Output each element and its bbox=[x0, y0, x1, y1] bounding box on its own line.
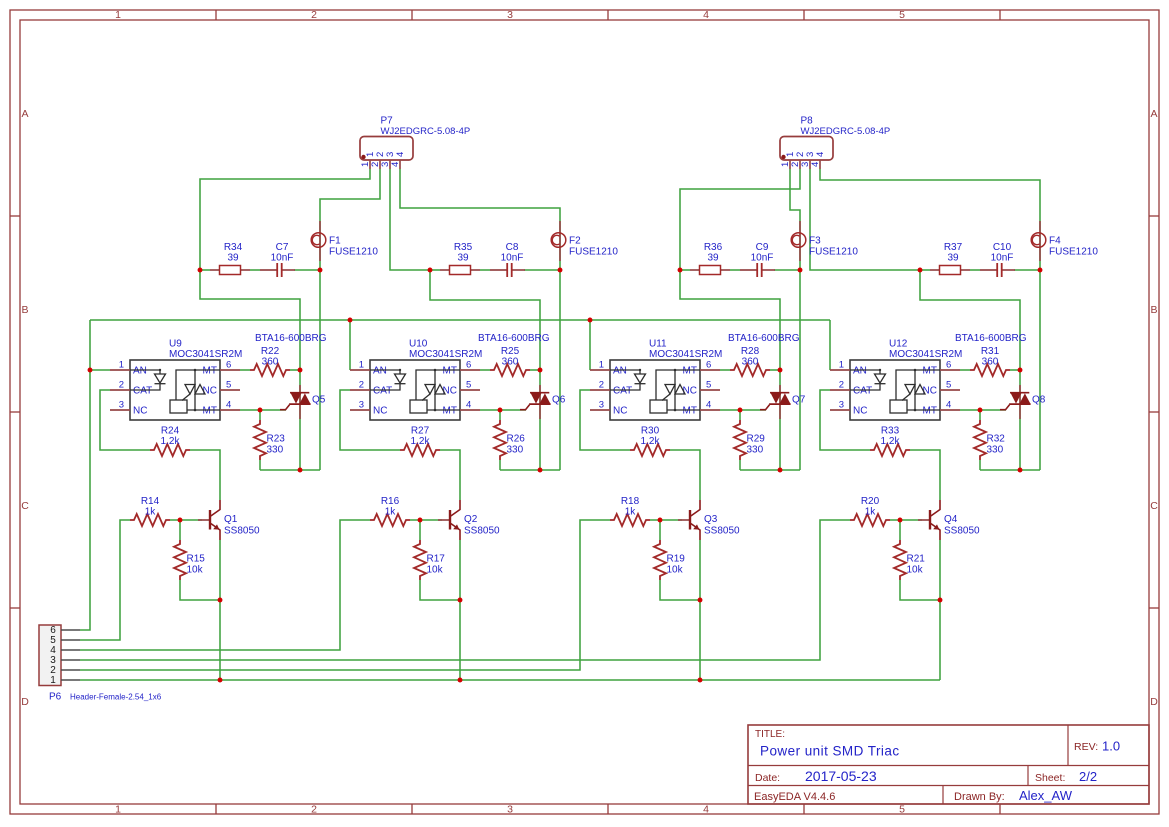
connector P8 WJ2EDGRC-5.08-4P bbox=[780, 116, 890, 170]
wire: emitter down to ground row bbox=[219, 540, 221, 680]
resistor R25 bbox=[490, 346, 530, 376]
wire: snubber 330 leads bbox=[979, 410, 981, 420]
wire: U12 AN drop bbox=[829, 320, 831, 370]
svg-text:5: 5 bbox=[706, 380, 711, 391]
wire: R27 to Q2 collector bbox=[440, 450, 460, 500]
svg-text:BTA16-600BRG: BTA16-600BRG bbox=[955, 333, 1027, 344]
junction bbox=[918, 268, 923, 273]
svg-text:Power unit SMD Triac: Power unit SMD Triac bbox=[760, 744, 900, 759]
svg-text:4: 4 bbox=[226, 400, 231, 411]
svg-text:330: 330 bbox=[747, 445, 764, 456]
svg-text:6: 6 bbox=[226, 360, 231, 371]
svg-text:5: 5 bbox=[226, 380, 231, 391]
resistor R19 bbox=[654, 540, 685, 580]
junction bbox=[178, 518, 183, 523]
svg-text:3: 3 bbox=[507, 9, 513, 21]
wire: R36 to C9 bbox=[730, 269, 740, 271]
svg-text:TITLE:: TITLE: bbox=[755, 729, 785, 740]
svg-text:1k: 1k bbox=[145, 507, 157, 518]
junction bbox=[218, 678, 223, 683]
wire: emitter down to ground row bbox=[699, 540, 701, 680]
junction bbox=[88, 368, 93, 373]
svg-text:MT: MT bbox=[923, 366, 937, 377]
junction bbox=[1018, 468, 1023, 473]
svg-text:R35: R35 bbox=[454, 242, 473, 253]
svg-text:5: 5 bbox=[899, 803, 905, 815]
fuse F3 bbox=[791, 221, 858, 261]
wire: R34 to C7 bbox=[250, 269, 260, 271]
wire: base node to 10k bbox=[659, 520, 661, 540]
wire: emitter down to ground row bbox=[939, 540, 941, 680]
transistor Q4 SS8050 bbox=[918, 500, 980, 540]
wire: opto MT pin6 to R360 bbox=[240, 369, 250, 371]
svg-text:P6: P6 bbox=[49, 692, 62, 703]
wire: P7 pin1 to node A1 bbox=[200, 169, 370, 270]
transistor Q3 SS8050 bbox=[678, 500, 740, 540]
wire: R33 to Q4 collector bbox=[910, 450, 940, 500]
wire: snubber 330 bottom to MT1 rail bbox=[740, 469, 800, 471]
svg-text:1.2k: 1.2k bbox=[161, 436, 181, 447]
svg-text:2: 2 bbox=[119, 380, 124, 391]
wire: P8 pin4 to fuse F4 bbox=[820, 169, 1040, 270]
svg-text:MT: MT bbox=[923, 406, 937, 417]
wire: U10 AN drop bbox=[349, 320, 351, 370]
svg-text:330: 330 bbox=[507, 445, 524, 456]
svg-text:R23: R23 bbox=[267, 434, 286, 445]
junction bbox=[778, 468, 783, 473]
junction bbox=[498, 408, 503, 413]
svg-text:10nF: 10nF bbox=[501, 252, 524, 263]
resistor R35 bbox=[440, 242, 480, 275]
fuse F4 bbox=[1031, 221, 1098, 261]
svg-text:MOC3041SR2M: MOC3041SR2M bbox=[409, 349, 482, 360]
wire: P6 pin2 to R18 bbox=[80, 520, 610, 670]
svg-text:10k: 10k bbox=[427, 565, 444, 576]
svg-text:F1: F1 bbox=[329, 236, 341, 247]
wire: R24 to Q1 collector bbox=[190, 450, 220, 500]
svg-text:4: 4 bbox=[466, 400, 471, 411]
svg-text:39: 39 bbox=[707, 252, 719, 263]
svg-text:39: 39 bbox=[227, 252, 239, 263]
wire: snubber 330 bottom to MT1 rail bbox=[500, 469, 560, 471]
svg-text:Q8: Q8 bbox=[1032, 395, 1046, 406]
svg-text:1k: 1k bbox=[865, 507, 877, 518]
svg-text:WJ2EDGRC-5.08-4P: WJ2EDGRC-5.08-4P bbox=[381, 126, 471, 137]
op-amp U11 MOC3041SR2M optocoupler bbox=[590, 339, 722, 421]
wire: R360 to triac bbox=[1010, 369, 1020, 371]
junction bbox=[418, 518, 423, 523]
svg-text:R19: R19 bbox=[667, 554, 686, 565]
svg-text:1.2k: 1.2k bbox=[881, 436, 901, 447]
wire: base node to 10k bbox=[179, 520, 181, 540]
junction bbox=[218, 598, 223, 603]
svg-text:Q7: Q7 bbox=[792, 395, 806, 406]
svg-text:10nF: 10nF bbox=[991, 252, 1014, 263]
wire: C7 to F1 node bbox=[294, 269, 320, 271]
resistor R23 bbox=[254, 420, 285, 460]
svg-text:Q4: Q4 bbox=[944, 514, 958, 525]
svg-text:R37: R37 bbox=[944, 242, 963, 253]
svg-text:MOC3041SR2M: MOC3041SR2M bbox=[169, 349, 242, 360]
wire: U10 CAT to R27 bbox=[340, 390, 400, 450]
junction bbox=[898, 518, 903, 523]
svg-text:SS8050: SS8050 bbox=[224, 526, 260, 537]
svg-text:10k: 10k bbox=[667, 565, 684, 576]
wire: anode rail ch1 / P6 pin6 bbox=[80, 320, 90, 630]
wire: base node to 10k bbox=[419, 520, 421, 540]
svg-text:NC: NC bbox=[133, 406, 147, 417]
wire: node A1 down to triac Q5 bbox=[200, 270, 300, 370]
junction bbox=[318, 268, 323, 273]
wire: P7 pin4 to fuse F2 bbox=[400, 169, 560, 270]
wire: base node to transistor bbox=[650, 519, 682, 521]
svg-text:6: 6 bbox=[466, 360, 471, 371]
wire: R360 to triac bbox=[530, 369, 540, 371]
wire: triac vertical MT2-MT1 bbox=[299, 370, 301, 470]
svg-text:FUSE1210: FUSE1210 bbox=[569, 247, 618, 258]
svg-text:1k: 1k bbox=[385, 507, 397, 518]
svg-text:3: 3 bbox=[359, 400, 364, 411]
svg-text:4: 4 bbox=[946, 400, 951, 411]
svg-text:39: 39 bbox=[947, 252, 959, 263]
svg-text:F4: F4 bbox=[1049, 236, 1061, 247]
svg-text:4: 4 bbox=[703, 803, 709, 815]
resistor R36 bbox=[690, 242, 730, 275]
svg-text:10nF: 10nF bbox=[271, 252, 294, 263]
svg-text:CAT: CAT bbox=[613, 386, 632, 397]
junction bbox=[258, 408, 263, 413]
resistor R20 bbox=[850, 496, 890, 526]
wire: 10k bottom to emitter bbox=[180, 580, 220, 600]
wire: P8 pin1 to fuse F3 bbox=[790, 169, 800, 270]
svg-text:NC: NC bbox=[443, 386, 457, 397]
svg-text:SS8050: SS8050 bbox=[464, 526, 500, 537]
svg-text:2/2: 2/2 bbox=[1079, 769, 1097, 784]
svg-text:R28: R28 bbox=[741, 346, 760, 357]
svg-text:REV:: REV: bbox=[1074, 741, 1098, 753]
svg-text:C7: C7 bbox=[276, 242, 289, 253]
svg-text:CAT: CAT bbox=[853, 386, 872, 397]
resistor R34 bbox=[210, 242, 250, 275]
junction bbox=[428, 268, 433, 273]
wire: F2 node rail down bbox=[559, 270, 561, 470]
svg-text:3: 3 bbox=[839, 400, 844, 411]
svg-text:2: 2 bbox=[311, 803, 317, 815]
wire: node A1 to R34 bbox=[200, 269, 210, 271]
svg-text:2: 2 bbox=[311, 9, 317, 21]
svg-text:R18: R18 bbox=[621, 496, 640, 507]
wire: U9 AN to rail bbox=[90, 369, 110, 371]
resistor R37 bbox=[930, 242, 970, 275]
resistor R17 bbox=[414, 540, 445, 580]
resistor R16 bbox=[370, 496, 410, 526]
svg-text:BTA16-600BRG: BTA16-600BRG bbox=[478, 333, 550, 344]
junction bbox=[778, 368, 783, 373]
wire: U12 CAT to R33 bbox=[820, 390, 870, 450]
svg-text:R25: R25 bbox=[501, 346, 520, 357]
svg-text:WJ2EDGRC-5.08-4P: WJ2EDGRC-5.08-4P bbox=[801, 126, 891, 137]
svg-text:Drawn By:: Drawn By: bbox=[954, 791, 1005, 803]
junction bbox=[1018, 368, 1023, 373]
resistor R22 bbox=[250, 346, 290, 376]
svg-text:F3: F3 bbox=[809, 236, 821, 247]
title block bbox=[748, 725, 1149, 804]
svg-text:1.2k: 1.2k bbox=[411, 436, 431, 447]
svg-text:360: 360 bbox=[742, 357, 759, 368]
svg-text:5: 5 bbox=[466, 380, 471, 391]
svg-text:2: 2 bbox=[839, 380, 844, 391]
connector P7 WJ2EDGRC-5.08-4P bbox=[360, 116, 470, 170]
svg-text:1: 1 bbox=[115, 9, 121, 21]
wire: triac vertical MT2-MT1 bbox=[539, 370, 541, 470]
junction bbox=[558, 268, 563, 273]
fuse F1 bbox=[311, 221, 378, 261]
svg-text:4: 4 bbox=[703, 9, 709, 21]
svg-text:F2: F2 bbox=[569, 236, 581, 247]
svg-text:R31: R31 bbox=[981, 346, 1000, 357]
svg-text:R21: R21 bbox=[907, 554, 926, 565]
svg-text:360: 360 bbox=[502, 357, 519, 368]
svg-text:4: 4 bbox=[395, 152, 406, 157]
wire: opto MT pin6 to R360 bbox=[720, 369, 730, 371]
svg-text:AN: AN bbox=[133, 366, 147, 377]
wire: P8 pin3 to node A4 bbox=[810, 169, 920, 270]
resistor R27 bbox=[400, 426, 440, 457]
svg-text:B: B bbox=[1150, 304, 1157, 316]
wire: C9 to F3 node bbox=[774, 269, 800, 271]
svg-text:10nF: 10nF bbox=[751, 252, 774, 263]
svg-text:R36: R36 bbox=[704, 242, 723, 253]
svg-text:D: D bbox=[1150, 696, 1158, 708]
junction bbox=[698, 598, 703, 603]
svg-text:FUSE1210: FUSE1210 bbox=[329, 247, 378, 258]
svg-text:MT: MT bbox=[203, 366, 217, 377]
junction bbox=[1038, 268, 1043, 273]
wire: R35 to C8 bbox=[480, 269, 490, 271]
wire: base node to transistor bbox=[410, 519, 442, 521]
svg-text:R30: R30 bbox=[641, 426, 660, 437]
svg-text:R34: R34 bbox=[224, 242, 243, 253]
wire: F1 node rail down bbox=[319, 270, 321, 470]
capacitor C7 bbox=[260, 242, 295, 277]
svg-text:Alex_AW: Alex_AW bbox=[1019, 788, 1073, 803]
svg-text:10k: 10k bbox=[907, 565, 924, 576]
svg-text:1: 1 bbox=[115, 803, 121, 815]
junction bbox=[698, 678, 703, 683]
resistor R29 bbox=[734, 420, 765, 460]
svg-text:R17: R17 bbox=[427, 554, 446, 565]
svg-text:NC: NC bbox=[683, 386, 697, 397]
svg-text:330: 330 bbox=[987, 445, 1004, 456]
wire: opto MT pin4 to triac gate bbox=[720, 409, 766, 411]
svg-text:Date:: Date: bbox=[755, 772, 780, 784]
svg-text:MOC3041SR2M: MOC3041SR2M bbox=[889, 349, 962, 360]
svg-text:R33: R33 bbox=[881, 426, 900, 437]
resistor R26 bbox=[494, 420, 525, 460]
resistor R18 bbox=[610, 496, 650, 526]
svg-text:MT: MT bbox=[683, 366, 697, 377]
triac Q8 BTA16-600BRG bbox=[955, 333, 1046, 419]
svg-text:Q5: Q5 bbox=[312, 395, 326, 406]
svg-text:Sheet:: Sheet: bbox=[1035, 772, 1065, 784]
wire: opto MT pin4 to triac gate bbox=[240, 409, 286, 411]
wire: U9 CAT to R24 bbox=[100, 390, 150, 450]
svg-text:3: 3 bbox=[507, 803, 513, 815]
svg-text:2: 2 bbox=[599, 380, 604, 391]
svg-text:3: 3 bbox=[599, 400, 604, 411]
svg-text:MT: MT bbox=[443, 406, 457, 417]
svg-text:D: D bbox=[21, 696, 29, 708]
junction bbox=[798, 268, 803, 273]
svg-text:10k: 10k bbox=[187, 565, 204, 576]
wire: base node to transistor bbox=[890, 519, 922, 521]
transistor Q2 SS8050 bbox=[438, 500, 500, 540]
wire: U11 AN drop bbox=[589, 320, 591, 370]
svg-text:R15: R15 bbox=[187, 554, 206, 565]
wire: triac vertical MT2-MT1 bbox=[779, 370, 781, 470]
wire: P6 pin4 to R16 bbox=[80, 520, 370, 650]
triac Q7 BTA16-600BRG bbox=[728, 333, 806, 419]
wire: P7 pin3 to node A2 bbox=[390, 169, 430, 270]
svg-text:C9: C9 bbox=[756, 242, 769, 253]
svg-text:A: A bbox=[1150, 108, 1157, 120]
svg-text:1.2k: 1.2k bbox=[641, 436, 661, 447]
svg-text:4: 4 bbox=[706, 400, 711, 411]
svg-text:NC: NC bbox=[203, 386, 217, 397]
junction bbox=[298, 368, 303, 373]
junction bbox=[198, 268, 203, 273]
wire: base node to 10k bbox=[899, 520, 901, 540]
svg-text:330: 330 bbox=[267, 445, 284, 456]
wire: LED anode bus bbox=[90, 319, 830, 321]
svg-text:SS8050: SS8050 bbox=[704, 526, 740, 537]
wire: P6 pin5 to R14 bbox=[80, 520, 130, 640]
wire: triac vertical MT2-MT1 bbox=[1019, 370, 1021, 470]
svg-text:5: 5 bbox=[899, 9, 905, 21]
resistor R28 bbox=[730, 346, 770, 376]
junction bbox=[348, 318, 353, 323]
wire: C8 to F2 node bbox=[524, 269, 560, 271]
wire: node A4 down to triac Q8 bbox=[920, 270, 1020, 370]
svg-text:A: A bbox=[21, 108, 28, 120]
junction bbox=[658, 518, 663, 523]
svg-text:FUSE1210: FUSE1210 bbox=[1049, 247, 1098, 258]
svg-text:EasyEDA V4.4.6: EasyEDA V4.4.6 bbox=[754, 791, 835, 803]
svg-text:R14: R14 bbox=[141, 496, 160, 507]
svg-text:1: 1 bbox=[599, 360, 604, 371]
svg-text:5: 5 bbox=[946, 380, 951, 391]
wire: R360 to triac bbox=[290, 369, 300, 371]
svg-text:1: 1 bbox=[839, 360, 844, 371]
svg-text:C8: C8 bbox=[506, 242, 519, 253]
svg-text:MT: MT bbox=[683, 406, 697, 417]
capacitor C10 bbox=[980, 242, 1015, 277]
svg-text:MOC3041SR2M: MOC3041SR2M bbox=[649, 349, 722, 360]
svg-text:R24: R24 bbox=[161, 426, 180, 437]
op-amp U12 MOC3041SR2M optocoupler bbox=[830, 339, 962, 421]
wire: opto MT pin4 to triac gate bbox=[480, 409, 526, 411]
svg-text:Header-Female-2.54_1x6: Header-Female-2.54_1x6 bbox=[70, 693, 162, 702]
wire: 10k bottom to emitter bbox=[660, 580, 700, 600]
junction bbox=[298, 468, 303, 473]
svg-text:2: 2 bbox=[359, 380, 364, 391]
resistor R24 bbox=[150, 426, 190, 457]
svg-text:SS8050: SS8050 bbox=[944, 526, 980, 537]
svg-text:C: C bbox=[21, 500, 29, 512]
resistor R32 bbox=[974, 420, 1005, 460]
wire: node A3 to R36 bbox=[680, 269, 690, 271]
op-amp U10 MOC3041SR2M optocoupler bbox=[350, 339, 482, 421]
svg-text:Q3: Q3 bbox=[704, 514, 718, 525]
triac Q6 BTA16-600BRG bbox=[478, 333, 566, 419]
svg-text:NC: NC bbox=[853, 406, 867, 417]
wire: node A3 down to triac Q7 bbox=[680, 270, 780, 370]
connector P6 Header-Female-2.54_1x6 bbox=[39, 625, 162, 703]
svg-text:C10: C10 bbox=[993, 242, 1012, 253]
wire: opto MT pin6 to R360 bbox=[480, 369, 490, 371]
resistor R21 bbox=[894, 540, 925, 580]
svg-text:R27: R27 bbox=[411, 426, 430, 437]
svg-text:CAT: CAT bbox=[373, 386, 392, 397]
junction bbox=[978, 408, 983, 413]
svg-text:R20: R20 bbox=[861, 496, 880, 507]
svg-text:2017-05-23: 2017-05-23 bbox=[805, 768, 877, 784]
junction bbox=[458, 598, 463, 603]
svg-text:NC: NC bbox=[613, 406, 627, 417]
resistor R30 bbox=[630, 426, 670, 457]
svg-text:6: 6 bbox=[946, 360, 951, 371]
junction bbox=[588, 318, 593, 323]
wire: snubber 330 leads bbox=[499, 410, 501, 420]
resistor R14 bbox=[130, 496, 170, 526]
wire: snubber 330 bottom to MT1 rail bbox=[260, 469, 320, 471]
wire: U11 CAT to R30 bbox=[580, 390, 630, 450]
svg-text:AN: AN bbox=[853, 366, 867, 377]
wire: R360 to triac bbox=[770, 369, 780, 371]
wire: node A2 to R35 bbox=[430, 269, 440, 271]
svg-text:Q6: Q6 bbox=[552, 395, 566, 406]
wire: snubber 330 bottom to MT1 rail bbox=[980, 469, 1040, 471]
svg-text:FUSE1210: FUSE1210 bbox=[809, 247, 858, 258]
wire: P8 pin2 to node A3 bbox=[680, 169, 800, 270]
junction bbox=[538, 368, 543, 373]
svg-text:1.0: 1.0 bbox=[1102, 739, 1120, 754]
wire: node A2 down to triac Q6 bbox=[430, 270, 540, 370]
junction bbox=[938, 598, 943, 603]
wire: F4 node rail down bbox=[1039, 270, 1041, 470]
svg-text:C: C bbox=[1150, 500, 1158, 512]
svg-text:R16: R16 bbox=[381, 496, 400, 507]
svg-text:MT: MT bbox=[203, 406, 217, 417]
svg-text:3: 3 bbox=[119, 400, 124, 411]
wire: P7 pin2 to fuse F1 bbox=[320, 169, 380, 270]
wire: snubber 330 leads bbox=[739, 410, 741, 420]
wire: 10k bottom to emitter bbox=[900, 580, 940, 600]
svg-text:Q1: Q1 bbox=[224, 514, 238, 525]
svg-text:MT: MT bbox=[443, 366, 457, 377]
fuse F2 bbox=[551, 221, 618, 261]
svg-text:1: 1 bbox=[119, 360, 124, 371]
svg-text:360: 360 bbox=[262, 357, 279, 368]
svg-text:4: 4 bbox=[390, 162, 401, 167]
resistor R31 bbox=[970, 346, 1010, 376]
svg-text:NC: NC bbox=[923, 386, 937, 397]
junction bbox=[538, 468, 543, 473]
wire: C10 to F4 node bbox=[1014, 269, 1040, 271]
wire: node A4 to R37 bbox=[920, 269, 930, 271]
svg-text:BTA16-600BRG: BTA16-600BRG bbox=[728, 333, 800, 344]
wire: P6 pin1 ground row bbox=[80, 679, 940, 681]
